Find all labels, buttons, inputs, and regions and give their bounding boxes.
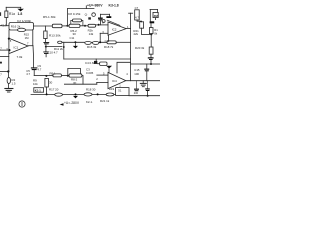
node junction R9 top: [45, 75, 47, 77]
node junction y95.7: [147, 95, 149, 97]
capacitor polarized blob IC3: [106, 66, 112, 69]
wire ground stub: [142, 81, 144, 84]
wire y75.5 to R8-1: [46, 75, 53, 77]
wire R8-2 to IC3 input: [82, 76, 83, 85]
wire K3 right leg: [109, 14, 111, 16]
capacitor C plates mid-right: [144, 69, 149, 70]
capacitor C1 polarized blob: [20, 7, 22, 8]
meter circle symbol: [92, 13, 96, 17]
resistor R20 box: [149, 47, 153, 54]
wire R13 bottom lead: [44, 39, 46, 42]
resistor feedback box: [107, 41, 116, 44]
wire inverting input drop: [99, 33, 101, 42]
wire node down x8.6: [8, 50, 10, 71]
wire cap to node: [150, 60, 152, 64]
svg-text:42k: 42k: [133, 32, 138, 36]
resistor R8-1: [53, 74, 62, 77]
op-amp IC1: [9, 38, 28, 53]
svg-text:14k: 14k: [89, 32, 94, 36]
wire C9 bottom lead: [33, 70, 35, 75]
svg-text:R21 1k: R21 1k: [100, 99, 110, 103]
wire feedback to rail: [116, 41, 130, 43]
node junction y64: [150, 63, 152, 65]
resistor right box: [149, 28, 153, 34]
wire R2 bottom lead: [8, 84, 10, 89]
wire node down to C10: [45, 44, 47, 51]
contact K3-1 fixed bar: [106, 16, 111, 18]
resistor oval bottom 2: [84, 93, 92, 96]
wire IC3 lower input: [97, 81, 108, 83]
svg-text:4.7: 4.7: [26, 72, 30, 76]
svg-text:IC1: IC1: [14, 45, 19, 49]
capacitor C9 plates: [31, 67, 38, 68]
wire cap lower lead: [146, 71, 148, 80]
wire y34.4 to right rail: [142, 33, 152, 35]
resistor oval bottom 3: [106, 93, 114, 96]
svg-text:K1-1: K1-1: [35, 88, 42, 92]
resistor R1: [5, 11, 8, 18]
node junction x100.2: [99, 41, 101, 43]
wire terminal y71.5: [0, 71, 8, 73]
ground symbol right: [140, 82, 146, 84]
svg-text:R20 3k: R20 3k: [135, 46, 145, 50]
node junction x85: [84, 25, 86, 27]
svg-text:10k: 10k: [33, 82, 38, 86]
contact K3-1 pivot circle: [102, 20, 105, 23]
wire IC1 lower input: [0, 49, 9, 51]
node junction x97.6: [97, 93, 99, 95]
resistor R13: [44, 31, 47, 39]
svg-text:C7: C7: [135, 6, 139, 10]
wire R20 to cap: [150, 54, 152, 57]
svg-text:100: 100: [134, 72, 139, 76]
svg-text:0.005: 0.005: [86, 71, 94, 75]
svg-text:R5-1 30k: R5-1 30k: [43, 15, 56, 19]
capacitor C plate lower: [98, 19, 102, 20]
node junction x75.5: [75, 93, 77, 95]
resistor R5-2: [69, 24, 80, 27]
svg-text:C2 1/100p: C2 1/100p: [17, 19, 32, 23]
wire R2b to IC2: [96, 24, 108, 26]
svg-text:C10 4.7: C10 4.7: [48, 50, 59, 54]
wire terminal y56.6: [0, 56, 9, 58]
wire corner to 4M box: [157, 10, 159, 13]
component box 4M: [153, 12, 158, 17]
wire blob to box: [97, 63, 99, 65]
svg-text:K3-1.8: K3-1.8: [109, 4, 119, 8]
contact K3-1 lever diagonal: [107, 20, 120, 25]
wire CA upper lead: [136, 81, 138, 89]
capacitor C plate upper: [98, 18, 103, 19]
wire drop x63.8 to y59: [63, 42, 65, 59]
svg-text:C11: C11: [70, 36, 75, 40]
capacitor C8 box parallel: [73, 19, 82, 22]
wire right rail upper: [149, 10, 151, 22]
wire blob stub: [95, 59, 97, 61]
wire IC1 output: [28, 45, 33, 47]
wire IC2 output: [126, 28, 130, 30]
svg-text:R18 30: R18 30: [86, 87, 96, 91]
wire R5-1 to node: [62, 25, 69, 27]
svg-text:1.8: 1.8: [18, 12, 23, 16]
node junction x67: [66, 25, 68, 27]
wire feedback loop around IC1: [9, 23, 34, 31]
capacitor plates right: [148, 57, 154, 58]
svg-text:R18 7k: R18 7k: [104, 45, 114, 49]
capacitor polarized blob bottom: [73, 96, 78, 99]
resistor B2: [140, 22, 144, 28]
wire K3 contact top: [100, 13, 109, 15]
wire CB upper lead: [147, 81, 149, 89]
meter lead marks: [88, 17, 91, 19]
svg-text:IC4: IC4: [112, 79, 117, 83]
svg-text:30: 30: [49, 81, 53, 85]
wire main input y=25.7: [0, 25, 9, 27]
node junction x46.6: [46, 93, 48, 95]
wire C10 bottom stub: [45, 54, 47, 57]
wire C8 left stub: [71, 20, 73, 24]
svg-text:+U=-980V: +U=-980V: [87, 4, 103, 8]
svg-text:Q·: Q·: [85, 13, 88, 17]
svg-text:C4 0.68: C4 0.68: [85, 61, 96, 65]
wire supply tap tick: [85, 6, 87, 9]
junction blob right rail: [150, 21, 155, 23]
svg-text:C8 0.15k: C8 0.15k: [68, 12, 81, 16]
capacitor plate pair: [43, 41, 49, 44]
wire B1 to B2 elbow: [137, 20, 142, 22]
wire rail blob to box: [150, 23, 152, 27]
svg-text:IC2: IC2: [112, 27, 117, 31]
svg-text:K2-1.: K2-1.: [86, 100, 93, 104]
node junction x67.8: [67, 75, 69, 77]
wire cap to input node: [99, 20, 101, 24]
resistor R5-1: [52, 24, 62, 28]
node junction y71.5: [7, 70, 9, 72]
wire feedback y42.3: [62, 41, 107, 43]
wire R8-1 to node: [61, 75, 69, 77]
svg-text:4M: 4M: [154, 14, 159, 18]
relay box K1-1: [34, 88, 44, 93]
wire R13 top lead: [44, 26, 46, 31]
wire top-left horizontal: [6, 6, 21, 8]
capacitor CB plates: [145, 88, 150, 89]
arrow output marker: [60, 103, 64, 106]
resistor R9: [45, 78, 49, 87]
wire R1 bottom lead: [5, 18, 7, 26]
wire bottom bus y94.4: [31, 93, 116, 95]
terminal mark left edge: [0, 12, 1, 16]
component box B1: [135, 10, 140, 20]
op-amp IC2: [108, 22, 126, 35]
wire R2 top lead: [8, 72, 10, 78]
svg-text:4.7: 4.7: [37, 67, 41, 71]
op-amp IC3: [108, 72, 126, 88]
svg-text:R8-1: R8-1: [50, 71, 57, 75]
resistor R16 oval on loop: [17, 28, 25, 31]
resistor oval mid 2: [93, 41, 99, 44]
svg-text:R16 2k: R16 2k: [11, 24, 21, 28]
wire bottom right y95.7: [129, 95, 160, 97]
wire y64: [131, 63, 160, 65]
svg-text:+U=-280V: +U=-280V: [64, 101, 80, 105]
node junction x98.6: [98, 24, 100, 26]
svg-text:30: 30: [73, 32, 77, 36]
svg-text:200: 200: [134, 91, 139, 95]
svg-text:R19: R19: [109, 87, 115, 91]
resistor oval mid 1: [85, 41, 91, 44]
wire IC3 top input: [97, 74, 108, 76]
svg-text:1M: 1M: [25, 36, 30, 40]
node IC1 top input: [8, 38, 10, 40]
wire CB lower lead: [147, 91, 149, 96]
wire blob to IC3: [108, 69, 110, 73]
relay box K1 coil: [116, 88, 129, 96]
resistor oval bottom 1: [55, 93, 63, 96]
capacitor C10 plates: [43, 51, 49, 54]
wire supply top y=8.6: [67, 8, 94, 10]
ground symbol: [5, 88, 13, 90]
wire big box corner: [117, 62, 131, 73]
svg-text:R13 30k: R13 30k: [49, 34, 61, 38]
node junction x45.9: [45, 46, 47, 48]
wire R9 bottom lead: [46, 87, 48, 94]
wire bridge over R8-2: [68, 68, 81, 75]
wire loop to R5-1: [34, 25, 53, 27]
wire supply rail x67: [66, 9, 68, 26]
wire lower input corner: [96, 82, 98, 84]
svg-text:51: 51: [118, 88, 122, 92]
wire bus y59: [64, 58, 131, 60]
wire right top y9.5: [150, 9, 158, 11]
wire B2 bottom lead: [141, 28, 143, 34]
junction blob C4: [94, 61, 97, 64]
wire IC3 output: [126, 80, 160, 82]
resistor R8-2: [69, 74, 82, 77]
wire rail down: [150, 34, 152, 47]
wire cap upper lead: [146, 64, 148, 69]
node junction x151.4: [150, 33, 152, 35]
wire R5-2 to R2b: [80, 25, 88, 27]
wire y75.5 to R9 node: [34, 75, 46, 77]
svg-text:4.7: 4.7: [135, 16, 139, 20]
wire output rail down: [32, 46, 35, 68]
node junction x75.4: [74, 41, 76, 43]
wire IC2 power pin down: [108, 35, 110, 41]
rail top tick: [129, 12, 133, 14]
wire K3 left leg: [99, 14, 101, 17]
resistor R2 oval: [7, 77, 10, 83]
terminal blob left edge: [0, 62, 2, 64]
wire C8 right stub: [82, 20, 83, 25]
wire rail x130.6: [130, 13, 132, 81]
wire loop left edge down to input: [8, 30, 10, 39]
wire 4M bottom lead: [154, 18, 156, 20]
capacitor polarized blob: [74, 42, 76, 46]
terminal circled 1: [19, 101, 25, 107]
resistor R2b: [88, 24, 96, 27]
svg-text:R17 20: R17 20: [49, 88, 59, 92]
svg-text:R1a: R1a: [9, 12, 15, 16]
svg-text:R15 3k: R15 3k: [87, 45, 97, 49]
wire node to right y46.6: [46, 46, 62, 48]
wire IC2 inverting input: [100, 32, 108, 34]
wire R1 top lead: [5, 7, 7, 11]
node lower input: [8, 49, 10, 51]
wire y84.2: [64, 83, 96, 85]
capacitor CA plates: [134, 89, 139, 90]
wire feedback rail up: [32, 30, 34, 46]
node junction x63.8: [63, 46, 65, 48]
resistor box IC3 input: [100, 62, 107, 65]
resistor oval on feedback wire: [58, 41, 62, 43]
svg-text:7.0k: 7.0k: [17, 55, 23, 59]
svg-text:1.5: 1.5: [12, 81, 16, 85]
